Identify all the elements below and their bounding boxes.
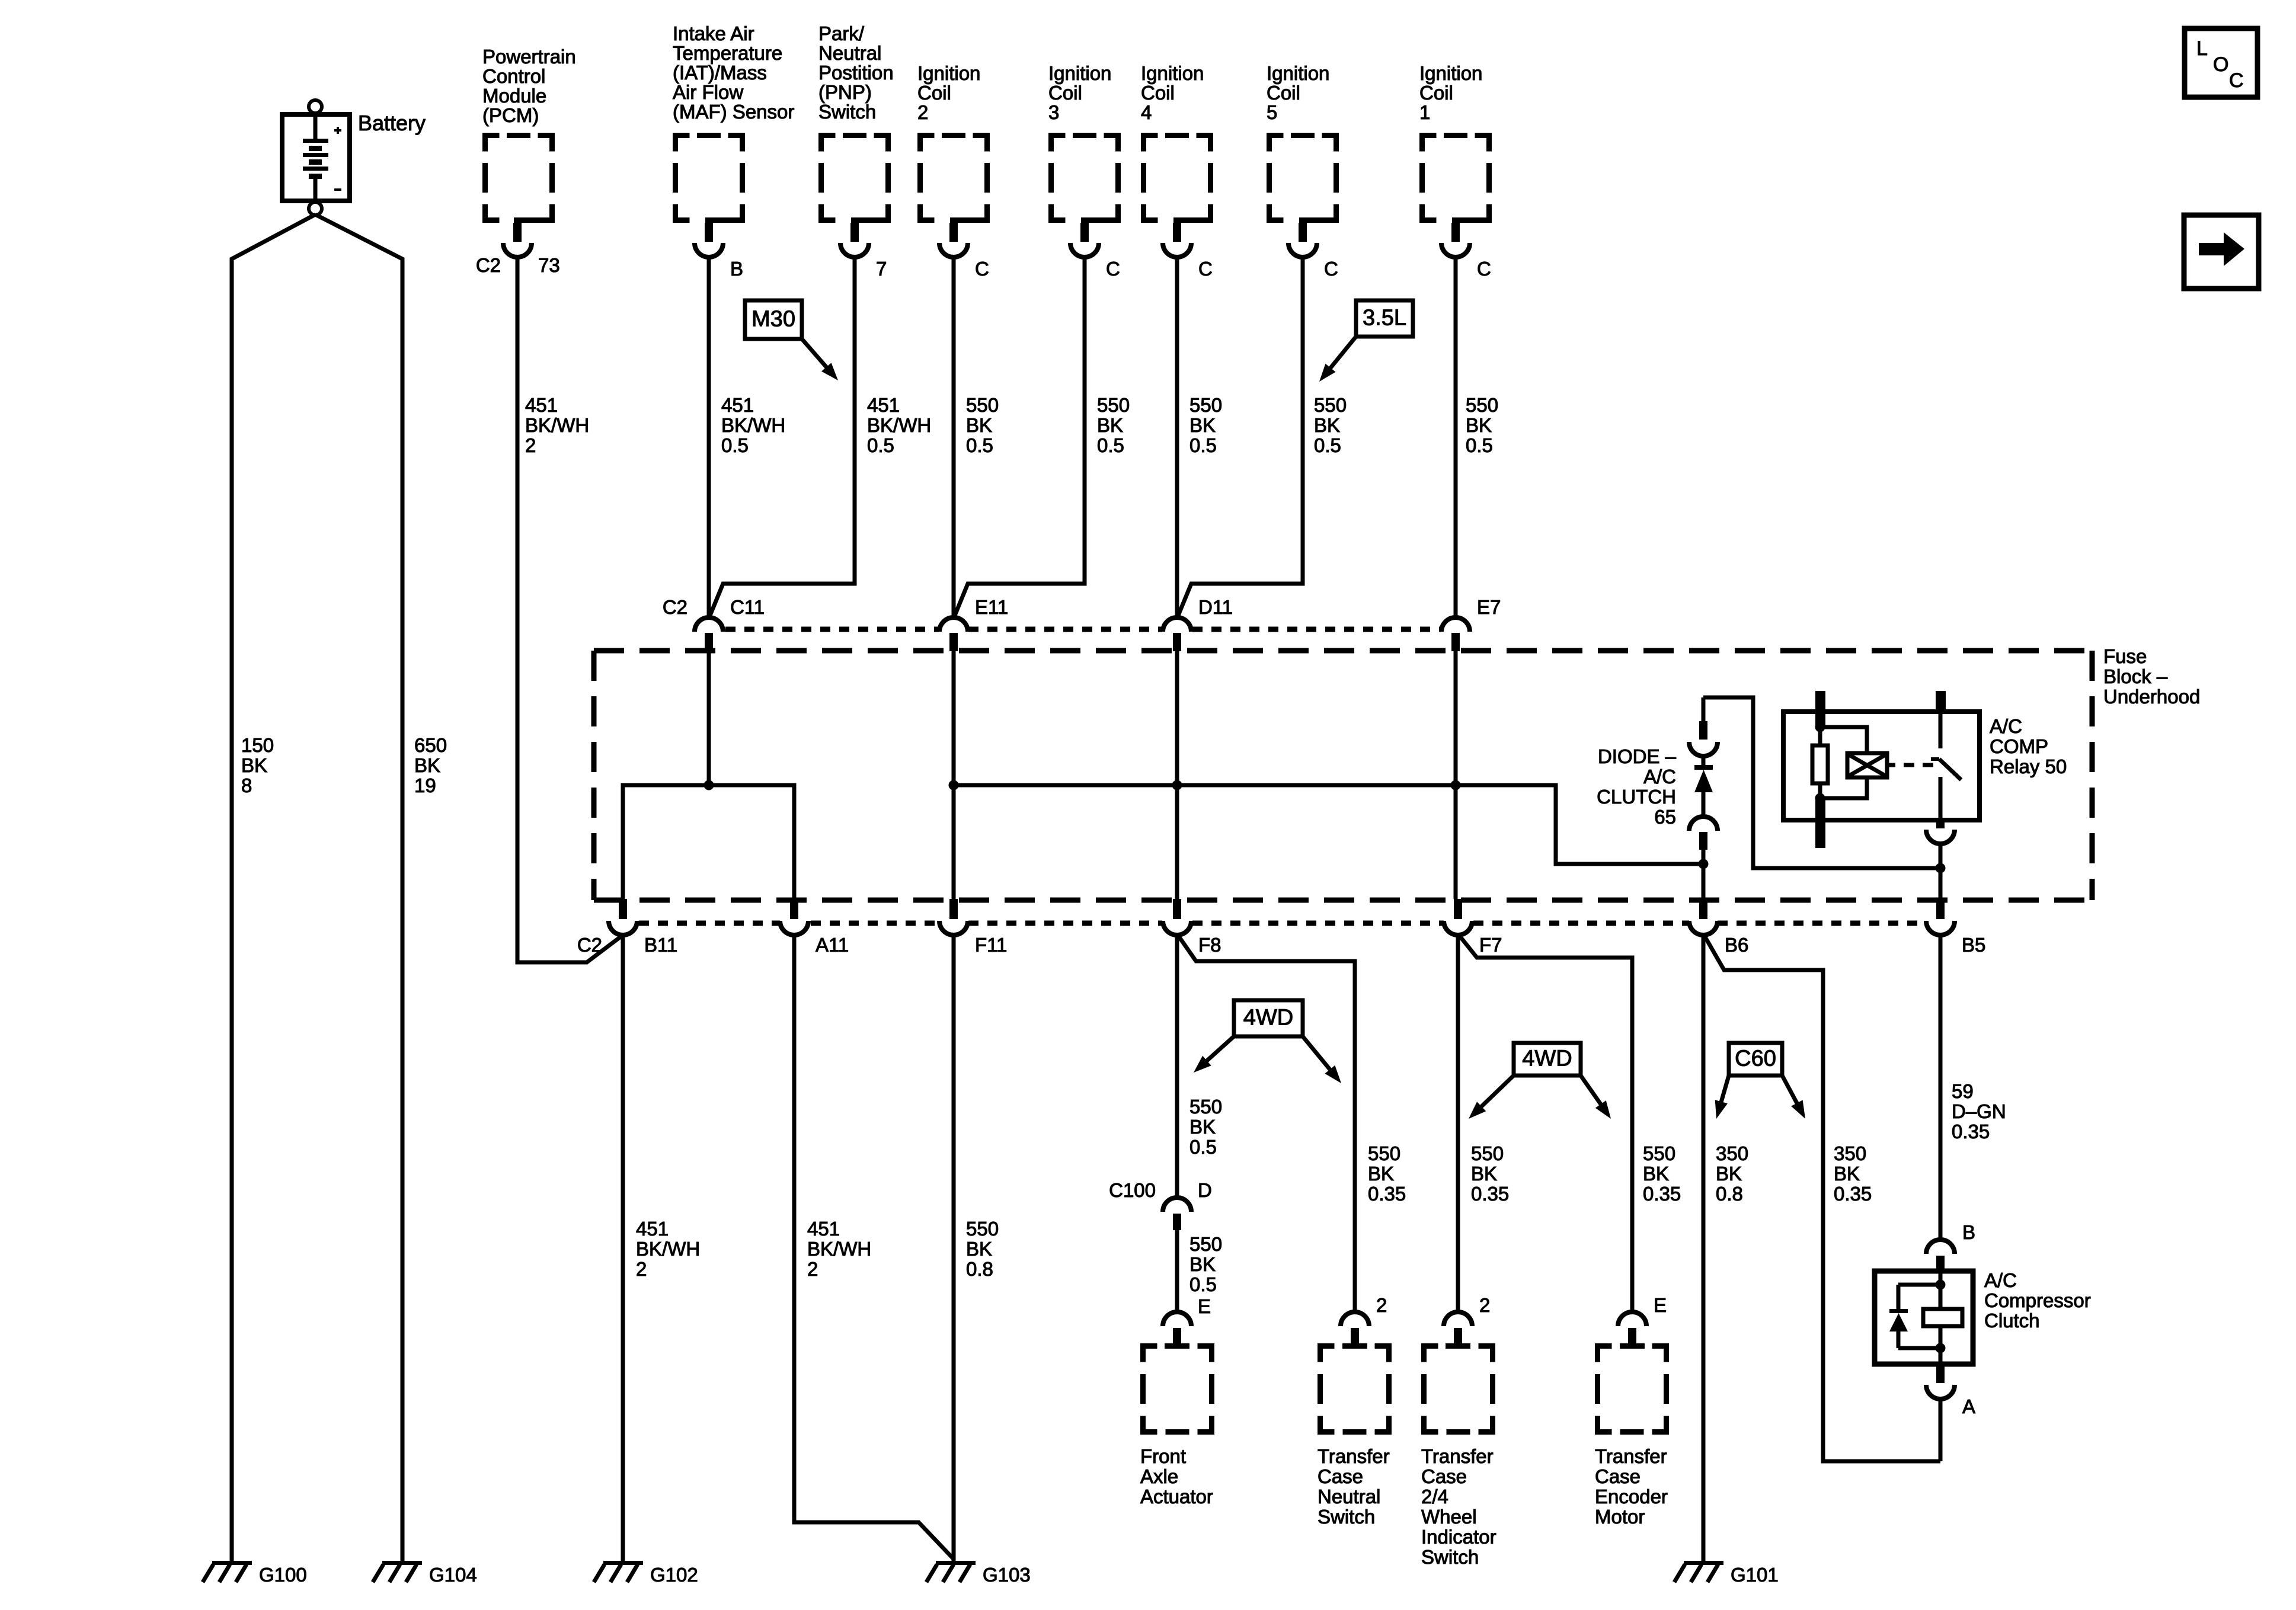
wire 451 BK/WH 0.5 from IAT to C11 bbox=[707, 256, 711, 617]
svg-text:BK: BK bbox=[1189, 1253, 1216, 1275]
Ignition Coil 3 bbox=[1051, 136, 1066, 152]
svg-text:451: 451 bbox=[867, 394, 900, 416]
svg-text:A/C: A/C bbox=[1643, 766, 1676, 788]
svg-text:Postition: Postition bbox=[818, 62, 894, 84]
wire battery to G104 (650 BK 19) bbox=[315, 215, 402, 1561]
svg-text:BK/WH: BK/WH bbox=[867, 414, 931, 436]
svg-text:350: 350 bbox=[1716, 1142, 1748, 1164]
svg-text:C100: C100 bbox=[1109, 1179, 1156, 1201]
ground G100 bbox=[212, 1561, 252, 1565]
svg-text:7: 7 bbox=[876, 258, 887, 280]
wire 550 BK 0.5 C100 to Front Axle Actuator bbox=[1175, 1230, 1179, 1313]
svg-text:B6: B6 bbox=[1725, 934, 1748, 956]
svg-text:C: C bbox=[1324, 258, 1338, 280]
svg-text:G104: G104 bbox=[429, 1564, 477, 1586]
svg-text:0.5: 0.5 bbox=[1314, 434, 1341, 456]
connector D11 bbox=[1163, 617, 1191, 632]
connector C100 pin D bbox=[1163, 1198, 1191, 1212]
svg-text:Axle: Axle bbox=[1140, 1465, 1178, 1487]
svg-text:C: C bbox=[1106, 258, 1120, 280]
svg-text:0.5: 0.5 bbox=[1189, 1136, 1217, 1158]
Ignition Coil 3 connector pin C bbox=[1080, 223, 1089, 242]
svg-text:Ignition: Ignition bbox=[917, 62, 980, 84]
svg-text:D–GN: D–GN bbox=[1952, 1100, 2006, 1122]
svg-text:0.5: 0.5 bbox=[721, 434, 749, 456]
svg-text:5: 5 bbox=[1267, 101, 1277, 123]
svg-text:A11: A11 bbox=[816, 934, 849, 956]
svg-text:BK: BK bbox=[1189, 1116, 1216, 1138]
svg-text:Switch: Switch bbox=[1318, 1506, 1375, 1528]
svg-text:B5: B5 bbox=[1962, 934, 1985, 956]
wire diode to B6 bbox=[1702, 850, 1706, 899]
Fuse Block - Underhood dashed outline bbox=[594, 648, 2092, 654]
wire clutch internal bbox=[1939, 1273, 1943, 1362]
svg-text:3.5L: 3.5L bbox=[1363, 306, 1406, 331]
svg-text:BK: BK bbox=[1716, 1163, 1742, 1185]
connector pin 2 (Transfer Case 2/4 Wheel Indicator Switch) bbox=[1444, 1312, 1472, 1326]
connector B11 bbox=[619, 899, 627, 919]
svg-text:BK/WH: BK/WH bbox=[636, 1238, 700, 1260]
svg-text:451: 451 bbox=[721, 394, 754, 416]
svg-text:C11: C11 bbox=[730, 596, 765, 618]
svg-text:C: C bbox=[1477, 258, 1491, 280]
svg-text:2/4: 2/4 bbox=[1421, 1486, 1448, 1507]
svg-text:Clutch: Clutch bbox=[1984, 1310, 2040, 1331]
svg-text:BK: BK bbox=[1189, 414, 1216, 436]
Front Axle Actuator bbox=[1143, 1346, 1157, 1362]
svg-text:BK: BK bbox=[1643, 1163, 1669, 1185]
svg-text:A/C: A/C bbox=[1990, 715, 2022, 737]
svg-text:BK: BK bbox=[1368, 1163, 1394, 1185]
svg-text:3: 3 bbox=[1048, 101, 1059, 123]
connector B6 bbox=[1699, 899, 1707, 919]
arrow reference box bbox=[2184, 215, 2259, 289]
svg-text:1: 1 bbox=[1419, 101, 1430, 123]
Ignition Coil 5 bbox=[1269, 136, 1284, 152]
svg-text:BK: BK bbox=[966, 1238, 992, 1260]
svg-text:Powertrain: Powertrain bbox=[482, 46, 576, 68]
wire A down to loop bbox=[1939, 1398, 1943, 1461]
svg-text:Switch: Switch bbox=[1421, 1546, 1479, 1568]
svg-text:Case: Case bbox=[1318, 1465, 1363, 1487]
C60 callout bbox=[1729, 1043, 1782, 1076]
connector E7 bbox=[1441, 617, 1470, 632]
wire 451 BK/WH 0.5 from PNP to C11 bbox=[709, 256, 855, 617]
fuse block bottom connector row (dotted) bbox=[639, 921, 780, 926]
svg-text:B: B bbox=[1962, 1221, 1975, 1243]
svg-text:C2: C2 bbox=[476, 254, 501, 276]
fuse block top connector row (dotted) bbox=[725, 627, 939, 632]
wire fuse internal bus E11-D11-E7 to diode bbox=[954, 785, 1703, 864]
svg-text:2: 2 bbox=[1376, 1294, 1387, 1316]
wire E11 to F11 bbox=[952, 651, 956, 899]
PNP connector pin 7 bbox=[850, 223, 859, 242]
svg-text:F8: F8 bbox=[1198, 934, 1221, 956]
svg-text:451: 451 bbox=[525, 394, 558, 416]
svg-text:Case: Case bbox=[1595, 1465, 1641, 1487]
svg-text:Coil: Coil bbox=[1141, 82, 1175, 104]
svg-text:550: 550 bbox=[1368, 1142, 1400, 1164]
svg-text:Park/: Park/ bbox=[818, 23, 865, 44]
svg-text:D: D bbox=[1198, 1179, 1212, 1201]
svg-text:650: 650 bbox=[414, 734, 447, 756]
svg-text:59: 59 bbox=[1952, 1080, 1974, 1102]
svg-text:Case: Case bbox=[1421, 1465, 1467, 1487]
svg-text:Module: Module bbox=[482, 85, 546, 107]
junction diode/bus bbox=[1699, 859, 1709, 869]
clutch solenoid bbox=[1923, 1309, 1962, 1326]
svg-text:550: 550 bbox=[966, 1218, 999, 1240]
svg-text:Encoder: Encoder bbox=[1595, 1486, 1668, 1507]
connector pin 2 (Transfer Case Neutral Switch) bbox=[1341, 1312, 1369, 1326]
wire fuse internal bus to B11 and A11 bbox=[623, 785, 794, 899]
svg-text:Temperature: Temperature bbox=[673, 42, 782, 64]
ground G102 bbox=[603, 1561, 643, 1565]
svg-text:A: A bbox=[1962, 1395, 1975, 1417]
M30 callout bbox=[745, 300, 802, 339]
svg-text:Coil: Coil bbox=[1048, 82, 1082, 104]
svg-text:451: 451 bbox=[807, 1218, 840, 1240]
svg-text:550: 550 bbox=[1189, 1096, 1222, 1118]
svg-text:(PCM): (PCM) bbox=[482, 104, 539, 126]
wire C11 into fuse block bbox=[707, 651, 711, 785]
Park/Neutral Postition (PNP) Switch bbox=[821, 136, 836, 152]
ground G104 bbox=[382, 1561, 422, 1565]
svg-text:Switch: Switch bbox=[818, 101, 876, 123]
svg-text:Transfer: Transfer bbox=[1595, 1445, 1667, 1467]
connector C11 bbox=[695, 617, 723, 632]
IAT connector pin B bbox=[705, 223, 713, 242]
relay switch output pin connector bbox=[1936, 820, 1945, 828]
svg-text:0.5: 0.5 bbox=[966, 434, 993, 456]
svg-text:Intake Air: Intake Air bbox=[673, 23, 754, 44]
wire junction to B5 bbox=[1939, 868, 1943, 899]
connector F11 bbox=[949, 899, 958, 919]
junction relay/B5 bbox=[1936, 863, 1946, 873]
svg-text:E: E bbox=[1198, 1295, 1211, 1317]
junction D11/bus bbox=[1172, 780, 1182, 790]
svg-text:550: 550 bbox=[1189, 394, 1222, 416]
svg-text:(IAT)/Mass: (IAT)/Mass bbox=[673, 62, 767, 84]
svg-text:BK: BK bbox=[1466, 414, 1492, 436]
svg-text:Coil: Coil bbox=[1267, 82, 1300, 104]
relay switch bbox=[1939, 712, 1943, 748]
svg-text:0.8: 0.8 bbox=[966, 1258, 993, 1280]
relay coil (solenoid X-box) bbox=[1820, 727, 1867, 754]
wire 550 BK 0.35 F7 to Transfer Case 2/4 Wheel Indicator Switch bbox=[1456, 934, 1460, 1313]
svg-text:Ignition: Ignition bbox=[1048, 62, 1111, 84]
svg-text:0.8: 0.8 bbox=[1716, 1183, 1743, 1205]
connector B5 bbox=[1936, 899, 1945, 919]
LOC reference box bbox=[2185, 28, 2257, 97]
svg-text:0.5: 0.5 bbox=[1189, 434, 1217, 456]
Transfer Case Neutral Switch bbox=[1320, 1346, 1335, 1362]
svg-text:Underhood: Underhood bbox=[2103, 686, 2200, 708]
svg-text:0.35: 0.35 bbox=[1952, 1121, 1990, 1142]
svg-text:DIODE –: DIODE – bbox=[1598, 745, 1677, 767]
svg-text:(PNP): (PNP) bbox=[818, 81, 872, 103]
svg-text:Actuator: Actuator bbox=[1140, 1486, 1213, 1507]
svg-text:COMP: COMP bbox=[1990, 735, 2048, 757]
svg-text:4: 4 bbox=[1141, 101, 1152, 123]
4WD callout 1 bbox=[1234, 1000, 1303, 1036]
3.5L callout bbox=[1356, 300, 1413, 337]
wire 550 BK 0.5 from Ignition Coil 3 bbox=[954, 256, 1085, 617]
diode A/C clutch 65 assembly bbox=[1702, 697, 1706, 721]
svg-text:73: 73 bbox=[538, 254, 560, 276]
svg-text:Wheel: Wheel bbox=[1421, 1506, 1477, 1528]
svg-text:M30: M30 bbox=[752, 307, 795, 332]
relay coil pin (bottom left) bbox=[1815, 798, 1825, 848]
connector F7 bbox=[1454, 899, 1462, 919]
junction E11/bus bbox=[949, 780, 959, 790]
wire relay to junction bbox=[1939, 843, 1943, 868]
svg-text:4WD: 4WD bbox=[1522, 1046, 1572, 1071]
svg-text:0.5: 0.5 bbox=[1466, 434, 1493, 456]
svg-text:C2: C2 bbox=[663, 596, 687, 618]
wire diode top to relay switch and B5 bbox=[1703, 697, 1940, 868]
wire E7 to F7 bbox=[1454, 651, 1458, 899]
Ignition Coil 2 connector pin C bbox=[949, 223, 958, 242]
svg-text:G103: G103 bbox=[983, 1564, 1031, 1586]
svg-text:BK: BK bbox=[1471, 1163, 1497, 1185]
PCM connector C2 pin 73 bbox=[513, 223, 522, 242]
wire 451 BK/WH 2 B11 to G102 bbox=[621, 934, 625, 1561]
svg-text:Motor: Motor bbox=[1595, 1506, 1645, 1528]
Ignition Coil 5 connector pin C bbox=[1299, 223, 1307, 242]
svg-text:B11: B11 bbox=[644, 934, 677, 956]
svg-text:150: 150 bbox=[241, 734, 274, 756]
svg-text:Block –: Block – bbox=[2103, 665, 2168, 687]
Powertrain Control Module (PCM) bbox=[485, 136, 500, 152]
svg-text:BK: BK bbox=[414, 754, 440, 776]
connector pin A (A/C Compressor Clutch) bbox=[1936, 1364, 1945, 1383]
svg-text:65: 65 bbox=[1654, 806, 1676, 828]
wire 550 BK 0.5 from Ignition Coil 4 bbox=[1175, 256, 1179, 617]
svg-text:Relay 50: Relay 50 bbox=[1990, 756, 2067, 777]
svg-text:C: C bbox=[975, 258, 989, 280]
svg-text:0.5: 0.5 bbox=[1097, 434, 1124, 456]
wire 451 BK/WH 2 A11 to G103 bbox=[794, 934, 954, 1560]
connector pin E (Front Axle Actuator) bbox=[1163, 1312, 1191, 1326]
svg-text:550: 550 bbox=[966, 394, 999, 416]
junction E7/bus bbox=[1451, 780, 1461, 790]
svg-text:Front: Front bbox=[1140, 1445, 1186, 1467]
svg-text:350: 350 bbox=[1834, 1142, 1866, 1164]
svg-text:550: 550 bbox=[1189, 1233, 1222, 1255]
svg-text:BK: BK bbox=[1097, 414, 1123, 436]
Intake Air Temperature (IAT)/Mass Air Flow (MAF) Sensor bbox=[676, 136, 690, 152]
junction C11/bus bbox=[704, 780, 714, 790]
svg-text:BK/WH: BK/WH bbox=[807, 1238, 871, 1260]
wire 350 BK 0.35 B6 branch to A/C Compressor Clutch A bbox=[1703, 934, 1940, 1461]
relay actuator dashed link bbox=[1887, 763, 1895, 767]
svg-text:CLUTCH: CLUTCH bbox=[1597, 786, 1676, 808]
connector A11 bbox=[790, 899, 798, 919]
svg-text:Battery: Battery bbox=[358, 111, 426, 135]
relay coil resistor bbox=[1818, 727, 1822, 745]
clutch diode bbox=[1898, 1283, 1940, 1287]
svg-text:L: L bbox=[2196, 37, 2208, 60]
Transfer Case Encoder Motor bbox=[1598, 1346, 1612, 1362]
svg-text:Coil: Coil bbox=[1419, 82, 1453, 104]
svg-text:F7: F7 bbox=[1479, 934, 1502, 956]
svg-text:550: 550 bbox=[1097, 394, 1130, 416]
svg-text:0.35: 0.35 bbox=[1471, 1183, 1509, 1205]
svg-text:E11: E11 bbox=[975, 596, 1008, 618]
ground G103 bbox=[936, 1561, 976, 1565]
svg-text:2: 2 bbox=[1479, 1294, 1490, 1316]
svg-text:C: C bbox=[1198, 258, 1213, 280]
svg-text:F11: F11 bbox=[975, 934, 1007, 956]
svg-text:2: 2 bbox=[807, 1258, 818, 1280]
svg-text:C2: C2 bbox=[577, 934, 602, 956]
wire 59 D-GN 0.35 B5 to A/C Compressor Clutch B bbox=[1939, 934, 1943, 1240]
Ignition Coil 1 connector pin C bbox=[1451, 223, 1460, 242]
svg-text:Ignition: Ignition bbox=[1419, 62, 1482, 84]
svg-text:Transfer: Transfer bbox=[1318, 1445, 1390, 1467]
svg-text:2: 2 bbox=[917, 101, 928, 123]
svg-text:0.35: 0.35 bbox=[1368, 1183, 1406, 1205]
wire 550 BK 0.5 F8 to C100 bbox=[1175, 934, 1179, 1198]
wire 550 BK 0.8 F11 to G103 bbox=[952, 934, 956, 1561]
wire 550 BK 0.35 F8 branch to Transfer Case Neutral Switch bbox=[1177, 934, 1355, 1313]
4WD callout 2 bbox=[1514, 1043, 1581, 1076]
wire 550 BK 0.35 F7 branch to Transfer Case Encoder Motor bbox=[1458, 934, 1632, 1313]
svg-text:BK: BK bbox=[1834, 1163, 1860, 1185]
svg-text:550: 550 bbox=[1466, 394, 1498, 416]
svg-text:G101: G101 bbox=[1731, 1564, 1779, 1586]
svg-text:Neutral: Neutral bbox=[818, 42, 881, 64]
connector pin E (Transfer Case Encoder Motor) bbox=[1618, 1312, 1646, 1326]
svg-text:Coil: Coil bbox=[917, 82, 951, 104]
wire D11 to F8 bbox=[1175, 651, 1179, 899]
svg-text:Compressor: Compressor bbox=[1984, 1289, 2091, 1311]
svg-text:0.5: 0.5 bbox=[1189, 1273, 1217, 1295]
svg-text:Air Flow: Air Flow bbox=[673, 81, 743, 103]
svg-text:BK/WH: BK/WH bbox=[525, 414, 589, 436]
Ignition Coil 2 bbox=[920, 136, 935, 152]
svg-text:Transfer: Transfer bbox=[1421, 1445, 1494, 1467]
svg-text:BK: BK bbox=[966, 414, 992, 436]
svg-text:0.35: 0.35 bbox=[1643, 1183, 1681, 1205]
svg-text:BK: BK bbox=[1314, 414, 1340, 436]
connector F8 bbox=[1173, 899, 1181, 919]
svg-text:Indicator: Indicator bbox=[1421, 1526, 1496, 1548]
relay switch pin (top right) bbox=[1936, 691, 1946, 713]
connector E11 bbox=[939, 617, 968, 632]
connector pin B (A/C Compressor Clutch) bbox=[1926, 1240, 1955, 1254]
svg-text:2: 2 bbox=[636, 1258, 647, 1280]
svg-text:G102: G102 bbox=[650, 1564, 698, 1586]
svg-text:550: 550 bbox=[1471, 1142, 1504, 1164]
svg-text:C60: C60 bbox=[1735, 1046, 1776, 1071]
svg-text:O: O bbox=[2213, 53, 2228, 76]
svg-text:0.35: 0.35 bbox=[1834, 1183, 1872, 1205]
relay coil pin (top left) bbox=[1815, 691, 1825, 727]
Ignition Coil 1 bbox=[1422, 136, 1437, 152]
svg-text:G100: G100 bbox=[259, 1564, 307, 1586]
svg-text:Control: Control bbox=[482, 65, 545, 87]
wire 451 BK/WH 2 from PCM to B11 bbox=[517, 256, 623, 962]
svg-text:19: 19 bbox=[414, 774, 436, 796]
svg-text:2: 2 bbox=[525, 434, 536, 456]
svg-text:BK/WH: BK/WH bbox=[721, 414, 785, 436]
svg-text:0.5: 0.5 bbox=[867, 434, 894, 456]
svg-text:C: C bbox=[2229, 69, 2244, 92]
svg-text:8: 8 bbox=[241, 774, 252, 796]
svg-text:BK: BK bbox=[241, 754, 267, 776]
svg-text:Ignition: Ignition bbox=[1141, 62, 1204, 84]
svg-text:Fuse: Fuse bbox=[2103, 645, 2147, 667]
A/C Compressor Clutch bbox=[1875, 1271, 1973, 1364]
ground G101 bbox=[1684, 1561, 1723, 1565]
svg-text:E7: E7 bbox=[1477, 596, 1501, 618]
Ignition Coil 4 bbox=[1144, 136, 1158, 152]
wire 550 BK 0.5 from Ignition Coil 2 bbox=[952, 256, 956, 617]
Ignition Coil 4 connector pin C bbox=[1173, 223, 1181, 242]
svg-text:E: E bbox=[1654, 1294, 1667, 1316]
battery bbox=[282, 100, 350, 215]
svg-text:550: 550 bbox=[1314, 394, 1347, 416]
svg-text:550: 550 bbox=[1643, 1142, 1675, 1164]
Transfer Case 2/4 Wheel Indicator Switch bbox=[1424, 1346, 1438, 1362]
svg-text:451: 451 bbox=[636, 1218, 669, 1240]
wire 350 BK 0.8 B6 to G101 bbox=[1702, 934, 1706, 1561]
svg-text:A/C: A/C bbox=[1984, 1269, 2017, 1291]
wire 550 BK 0.5 from Ignition Coil 1 bbox=[1454, 256, 1458, 617]
svg-text:D11: D11 bbox=[1198, 596, 1233, 618]
svg-text:B: B bbox=[730, 258, 743, 280]
wire 550 BK 0.5 from Ignition Coil 5 bbox=[1178, 256, 1303, 617]
wire battery to G100 (150 BK 8) bbox=[232, 215, 315, 1561]
A/C COMP Relay 50 bbox=[1783, 712, 1980, 820]
svg-text:(MAF) Sensor: (MAF) Sensor bbox=[673, 101, 794, 123]
svg-text:Neutral: Neutral bbox=[1318, 1486, 1380, 1507]
svg-text:4WD: 4WD bbox=[1243, 1006, 1293, 1030]
svg-text:Ignition: Ignition bbox=[1267, 62, 1329, 84]
